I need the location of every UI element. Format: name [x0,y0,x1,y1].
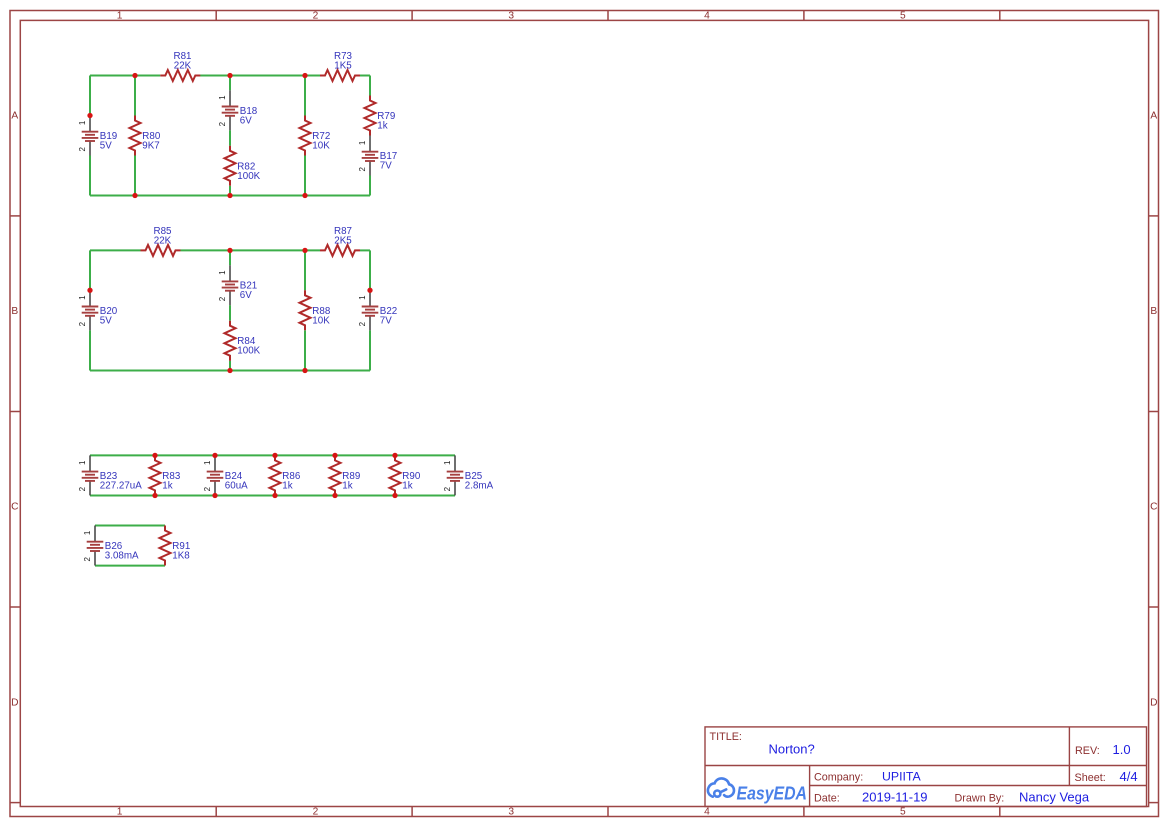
svg-text:1: 1 [117,11,123,22]
svg-text:1.0: 1.0 [1113,742,1131,757]
svg-text:3: 3 [508,11,514,22]
svg-text:60uA: 60uA [225,480,248,491]
svg-text:A: A [1150,111,1157,122]
svg-text:D: D [11,697,18,708]
svg-text:3.08mA: 3.08mA [105,551,139,562]
svg-text:1k: 1k [377,121,387,132]
svg-text:2.8mA: 2.8mA [465,480,494,491]
svg-text:2K5: 2K5 [334,236,352,247]
svg-text:A: A [11,111,18,122]
svg-text:22K: 22K [154,236,172,247]
svg-text:B: B [1150,306,1157,317]
svg-text:10K: 10K [312,316,330,327]
svg-text:B: B [11,306,18,317]
svg-text:3: 3 [508,806,514,817]
svg-text:Drawn By:: Drawn By: [955,793,1005,805]
svg-text:9K7: 9K7 [142,141,159,152]
svg-text:2: 2 [313,806,319,817]
svg-text:Company:: Company: [814,772,863,784]
svg-text:Nancy Vega: Nancy Vega [1019,790,1090,805]
svg-text:UPIITA: UPIITA [882,770,922,784]
svg-text:100K: 100K [237,171,260,182]
svg-text:C: C [11,502,18,513]
svg-text:100K: 100K [237,346,260,357]
svg-text:227.27uA: 227.27uA [100,480,142,491]
svg-text:1k: 1k [402,480,412,491]
svg-text:4: 4 [704,11,710,22]
svg-text:7V: 7V [380,161,392,172]
svg-text:5: 5 [900,11,906,22]
svg-text:2019-11-19: 2019-11-19 [862,790,928,805]
svg-text:1: 1 [117,806,123,817]
svg-text:6V: 6V [240,115,252,126]
svg-text:7V: 7V [380,316,392,327]
svg-text:4: 4 [704,806,710,817]
svg-text:Norton?: Norton? [769,742,815,757]
svg-text:4/4: 4/4 [1120,769,1138,784]
svg-text:TITLE:: TITLE: [710,731,742,743]
svg-text:Sheet:: Sheet: [1075,772,1106,784]
svg-text:EasyEDA: EasyEDA [737,784,808,804]
svg-text:10K: 10K [312,141,330,152]
svg-text:2: 2 [313,11,319,22]
svg-text:5: 5 [900,806,906,817]
svg-text:6V: 6V [240,290,252,301]
svg-text:5V: 5V [100,141,112,152]
svg-text:1K5: 1K5 [334,61,352,72]
svg-text:D: D [1150,697,1157,708]
svg-text:C: C [1150,502,1157,513]
svg-text:1k: 1k [162,480,172,491]
svg-text:22K: 22K [174,61,192,72]
svg-text:1K8: 1K8 [172,551,190,562]
svg-text:1k: 1k [342,480,352,491]
svg-text:5V: 5V [100,316,112,327]
svg-text:Date:: Date: [814,793,840,805]
svg-text:1k: 1k [282,480,292,491]
svg-text:REV:: REV: [1075,745,1100,757]
